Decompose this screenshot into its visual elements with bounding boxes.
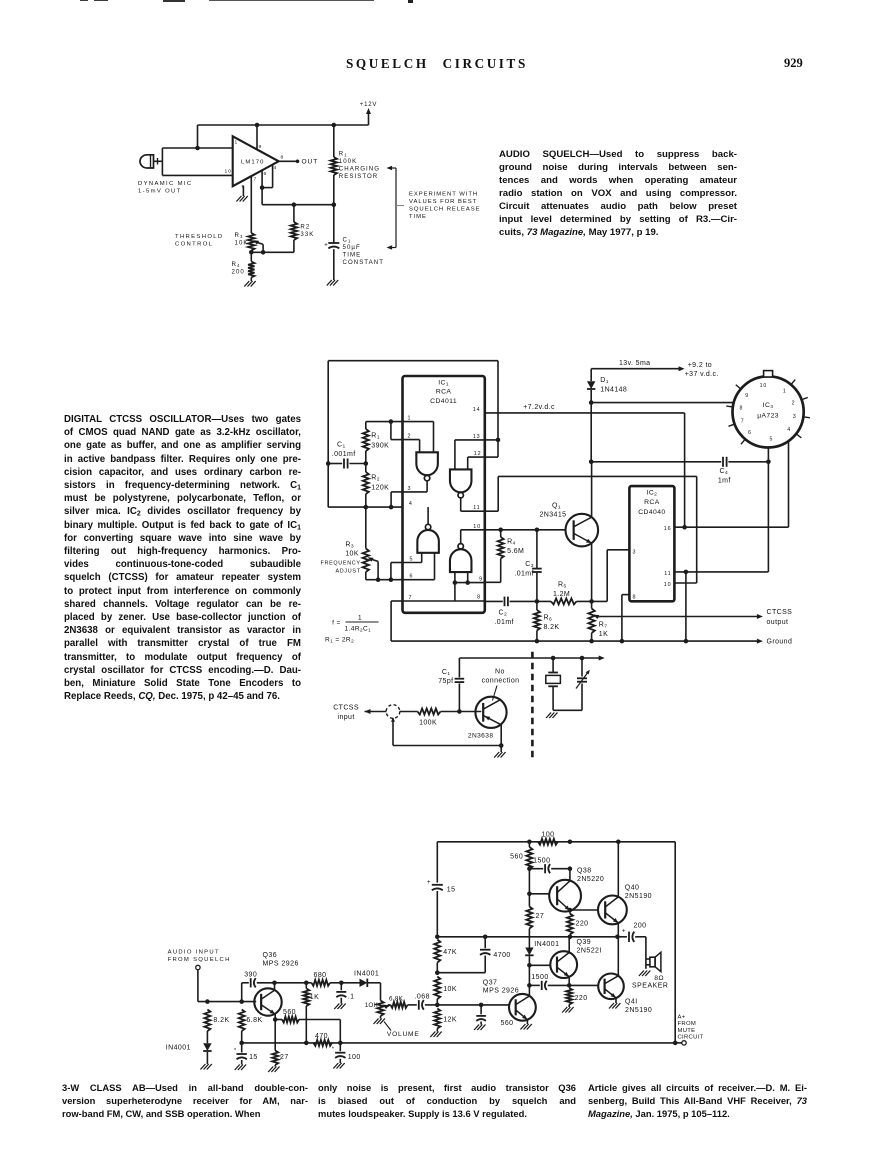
- svg-text:CONTROL: CONTROL: [175, 242, 213, 248]
- wire C4 line: [591, 460, 771, 465]
- svg-text:Q36: Q36: [263, 952, 278, 959]
- svg-text:RESISTOR: RESISTOR: [339, 173, 378, 180]
- potentiometer R7 1K: [588, 609, 599, 644]
- capacitor 1500 top: [529, 864, 572, 873]
- label R7: [599, 622, 608, 638]
- pin 8: [281, 154, 285, 160]
- label Q38: [577, 867, 604, 883]
- pin 1: [235, 140, 239, 146]
- svg-text:3: 3: [793, 414, 797, 420]
- ground 100: [333, 1063, 344, 1069]
- svg-text:13: 13: [473, 434, 481, 440]
- potentiometer 10K volume: [377, 1001, 390, 1017]
- svg-text:OUT: OUT: [302, 159, 319, 166]
- capacitor .068: [419, 1000, 438, 1010]
- svg-text:1N4148: 1N4148: [600, 386, 627, 393]
- wire 27 emitter: [274, 1020, 276, 1051]
- node D1 pin8 junction: [589, 400, 594, 405]
- wire CTCSS input line: [365, 709, 418, 714]
- svg-text:10K: 10K: [235, 240, 249, 247]
- microphone dynamic mic: [140, 155, 158, 168]
- svg-text:R2: R2: [371, 475, 380, 483]
- svg-text:Ground: Ground: [767, 639, 793, 646]
- svg-text:390K: 390K: [371, 442, 389, 449]
- ground speaker: [639, 971, 650, 977]
- svg-text:LM170: LM170: [241, 159, 265, 165]
- svg-text:R1: R1: [371, 433, 380, 441]
- svg-text:No: No: [495, 668, 505, 675]
- svg-text:1K: 1K: [310, 994, 319, 1001]
- svg-text:A+: A+: [678, 1014, 686, 1020]
- svg-text:THRESHOLD: THRESHOLD: [175, 234, 223, 240]
- transistor Q1 2N3415: [566, 514, 599, 547]
- resistor R2 33K: [291, 205, 297, 253]
- wire pin 5 to ground: [242, 186, 244, 196]
- page number 929: [784, 56, 803, 71]
- label 6.8K input: [246, 1017, 262, 1024]
- wire gate A input 1: [403, 422, 434, 453]
- svg-text:C1: C1: [343, 236, 352, 243]
- wire 2N3638 emitter down: [499, 725, 504, 752]
- wire to diode: [341, 982, 359, 984]
- svg-text:1mf: 1mf: [718, 477, 731, 484]
- node 1500 left: [527, 866, 532, 871]
- ground Q37: [520, 1024, 531, 1030]
- label +7.2v.d.c: [523, 404, 555, 411]
- svg-text:12: 12: [474, 451, 482, 457]
- wire Q40 collector: [617, 842, 619, 897]
- svg-text:ADJUST: ADJUST: [336, 568, 361, 574]
- label 2N3638: [468, 733, 494, 740]
- svg-text:6.8K: 6.8K: [389, 996, 404, 1003]
- wire Q40 emitter: [617, 923, 619, 937]
- wire gate D inputs: [403, 572, 485, 601]
- wire pin3 ext: [389, 492, 403, 510]
- svg-text:2N5220: 2N5220: [577, 876, 604, 883]
- wire R3 bottom pin5 pin6: [366, 563, 403, 583]
- wire 27 to diode: [528, 929, 530, 948]
- label 12K: [443, 1016, 457, 1023]
- svg-text:5: 5: [770, 437, 774, 443]
- svg-text:.01mf: .01mf: [494, 619, 514, 626]
- caption audio squelch: [499, 148, 737, 239]
- label experiment note: [409, 192, 481, 221]
- wire Q39 base: [529, 964, 550, 966]
- ground .1: [334, 1004, 345, 1010]
- label CTCSS output: [767, 609, 793, 626]
- svg-text:6.8K: 6.8K: [246, 1017, 262, 1024]
- resistor 10K: [434, 977, 440, 1008]
- resistor 560 emitter: [282, 1017, 340, 1023]
- formula f: [332, 615, 378, 633]
- wire pin8 IC3: [591, 402, 733, 404]
- ground crystal: [546, 713, 557, 719]
- label 27 Q38: [536, 913, 545, 920]
- svg-text:1.2M: 1.2M: [553, 591, 570, 598]
- wire pin1 ext: [366, 419, 403, 424]
- transistor Q38 2N5220: [549, 880, 581, 912]
- svg-text:Q38: Q38: [577, 867, 592, 874]
- capacitor 1500 bottom: [529, 981, 569, 990]
- wire Q41 base: [569, 984, 598, 986]
- svg-text:12K: 12K: [443, 1016, 457, 1023]
- svg-text:15: 15: [249, 1054, 258, 1061]
- resistor 680: [304, 980, 344, 986]
- pin 16 label: [664, 526, 672, 532]
- ground volume: [374, 1019, 385, 1025]
- label .068: [415, 993, 430, 1000]
- wire 13v supply: [591, 366, 684, 371]
- svg-text:CD4011: CD4011: [430, 398, 457, 405]
- svg-text:4: 4: [787, 427, 791, 433]
- transistor Q41 2N5190: [598, 974, 624, 1000]
- capacitor 200: [622, 928, 634, 942]
- resistor R4 200: [248, 252, 254, 281]
- svg-text:100K: 100K: [339, 158, 357, 165]
- label DYNAMIC MIC: [138, 181, 192, 195]
- wire C2 R5 line: [485, 598, 607, 604]
- resistor 12K: [434, 1009, 440, 1032]
- label R4: [507, 539, 524, 555]
- svg-text:RCA: RCA: [436, 389, 452, 396]
- wire C1 link: [326, 461, 368, 466]
- wire gate D output pin10: [461, 530, 485, 544]
- svg-text:TIME: TIME: [409, 214, 427, 220]
- svg-text:EXPERIMENT WITH: EXPERIMENT WITH: [409, 192, 478, 198]
- potentiometer R3 10K: [363, 549, 379, 580]
- label 15 top: [447, 887, 456, 894]
- nand gate B: [417, 524, 439, 553]
- wire output: [279, 160, 300, 164]
- svg-text:CONSTANT: CONSTANT: [343, 259, 384, 266]
- svg-text:.068: .068: [415, 993, 430, 1000]
- svg-text:R6: R6: [544, 615, 553, 623]
- nand gate A: [416, 452, 438, 481]
- svg-text:7: 7: [254, 177, 258, 183]
- label 10K: [443, 986, 457, 993]
- transistor Q37 MPS2926: [509, 994, 536, 1021]
- resistor 8.2K: [204, 1010, 210, 1032]
- svg-text:6: 6: [264, 171, 268, 177]
- label Q41: [625, 998, 652, 1014]
- svg-text:680: 680: [313, 972, 326, 979]
- ground pin5: [236, 196, 247, 202]
- svg-text:Q39: Q39: [577, 939, 592, 946]
- label 4700: [493, 952, 510, 959]
- wire gate B input pin 6: [403, 553, 435, 580]
- wire gate C input pin13: [455, 440, 485, 470]
- ground 560 bypass: [474, 1025, 485, 1031]
- svg-text:C4: C4: [720, 468, 729, 476]
- svg-text:8Ω: 8Ω: [654, 975, 664, 982]
- svg-text:CTCSS: CTCSS: [333, 704, 359, 711]
- ground 2N3638: [494, 752, 505, 758]
- svg-text:9: 9: [745, 393, 749, 399]
- pin 10 label: [664, 582, 672, 588]
- label R5: [553, 582, 570, 598]
- wire pin4 line: [328, 505, 402, 510]
- svg-text:.001mf: .001mf: [332, 451, 356, 458]
- resistor 220 Q39: [566, 988, 572, 1007]
- svg-text:10K: 10K: [443, 986, 457, 993]
- svg-text:IN4001: IN4001: [166, 1045, 191, 1052]
- label D1: [600, 377, 627, 393]
- nand gate C: [450, 469, 472, 498]
- label .1: [348, 993, 355, 1000]
- node C1 base junction: [457, 709, 462, 714]
- wire Q41 emitter: [615, 998, 617, 1003]
- svg-text:+: +: [427, 880, 431, 886]
- svg-text:4: 4: [409, 501, 413, 507]
- node pin9 junction: [255, 123, 260, 128]
- wire left rail top: [436, 842, 438, 883]
- svg-text:SPEAKER: SPEAKER: [632, 983, 668, 990]
- svg-text:8: 8: [633, 595, 637, 601]
- capacitor C3 .01mf: [532, 530, 542, 602]
- svg-text:MUTE: MUTE: [678, 1028, 696, 1034]
- resistor 470: [314, 1040, 333, 1046]
- svg-text:100: 100: [541, 831, 554, 838]
- label Q39: [577, 939, 602, 955]
- label R2 120K: [371, 475, 389, 492]
- wire pin8 gnd: [620, 595, 630, 644]
- label No connection: [482, 668, 520, 700]
- transistor Q39 2N5221: [550, 951, 577, 978]
- wire emitter return: [393, 718, 501, 745]
- wire pins 1-2 tie: [391, 422, 403, 440]
- svg-text:connection: connection: [482, 678, 520, 685]
- svg-text:1500: 1500: [533, 857, 550, 864]
- wire gate B input pin 5: [403, 553, 422, 563]
- transistor Q2 2N3638: [475, 697, 506, 728]
- svg-text:15: 15: [447, 887, 456, 894]
- svg-text:200: 200: [232, 269, 245, 276]
- svg-text:C2: C2: [499, 610, 508, 618]
- label 1500 top: [533, 857, 550, 864]
- svg-text:8.2K: 8.2K: [213, 1017, 229, 1024]
- svg-text:CTCSS: CTCSS: [767, 609, 793, 616]
- wire gate A input 2: [403, 440, 420, 453]
- svg-text:R1: R1: [339, 151, 348, 158]
- svg-text:1-5mV OUT: 1-5mV OUT: [138, 189, 182, 195]
- pin 7: [254, 177, 258, 183]
- label Q36: [263, 952, 299, 968]
- svg-text:4: 4: [274, 165, 278, 171]
- ground 15 input: [235, 1065, 246, 1071]
- label 390: [244, 971, 257, 978]
- svg-text:AUDIO INPUT: AUDIO INPUT: [168, 949, 220, 955]
- label 1500 bottom: [531, 974, 548, 981]
- diode 1N4001 input: [203, 1043, 211, 1064]
- svg-text:8.2K: 8.2K: [544, 624, 560, 631]
- svg-text:7: 7: [741, 419, 745, 425]
- svg-text:8: 8: [477, 594, 481, 600]
- wire pin11 reset gnd: [684, 572, 689, 643]
- svg-text:R1 = 2R2: R1 = 2R2: [325, 637, 354, 644]
- nand gate D: [450, 544, 472, 573]
- caption 3-w class ab col1: [62, 1081, 308, 1121]
- svg-text:IN4001: IN4001: [354, 970, 379, 977]
- svg-text:µA723: µA723: [757, 412, 779, 419]
- diode D1 1N4148: [587, 369, 595, 403]
- label FREQUENCY ADJUST: [321, 560, 361, 574]
- label R1: [339, 151, 380, 181]
- resistor 27 Q38: [526, 907, 532, 929]
- wire Q41 collector: [617, 937, 619, 976]
- label 470: [315, 1033, 328, 1040]
- node R1 top junction: [332, 123, 337, 128]
- label C1: [332, 441, 356, 458]
- pin 9 label: [479, 577, 483, 583]
- capacitor 4700: [437, 935, 490, 973]
- pin 4 label: [409, 501, 413, 507]
- wire Q39 collector: [568, 937, 570, 953]
- wire D1 node down: [589, 403, 594, 465]
- label R2: [300, 224, 314, 239]
- resistor 6.8K wiper: [388, 1002, 417, 1008]
- connector dashed circle: [386, 705, 400, 722]
- wire top rail: [437, 840, 675, 845]
- svg-text:5.6M: 5.6M: [507, 548, 524, 555]
- capacitor 15 input: [234, 1041, 247, 1065]
- wire pin6 feedback to pin4: [260, 165, 273, 190]
- pin 5 label: [410, 556, 414, 562]
- label 220 Q38: [576, 920, 589, 927]
- pin 14 label: [473, 407, 481, 413]
- svg-text:10K: 10K: [345, 551, 359, 558]
- label Ground: [767, 639, 793, 646]
- label 680: [313, 972, 326, 979]
- wire input down: [198, 970, 256, 1004]
- svg-text:RCA: RCA: [644, 499, 660, 506]
- label 560 top: [510, 854, 523, 861]
- svg-text:R3: R3: [235, 232, 244, 239]
- svg-text:1: 1: [235, 140, 239, 146]
- label 560 bypass: [501, 1020, 514, 1027]
- wire pin11 line: [674, 570, 768, 575]
- svg-text:2: 2: [408, 434, 412, 440]
- label OUT: [302, 159, 319, 166]
- pin 8 label: [477, 594, 481, 600]
- node pin13 junction: [496, 438, 501, 443]
- svg-text:.1: .1: [348, 993, 355, 1000]
- wire CTCSS output: [600, 614, 763, 619]
- wire 560 down: [338, 1020, 343, 1046]
- IC U2 CD4040 box: [629, 486, 674, 601]
- IC U1 CD4011 box: [403, 376, 485, 613]
- svg-text:IC3: IC3: [763, 402, 774, 410]
- svg-text:9: 9: [479, 577, 483, 583]
- svg-text:R3: R3: [345, 542, 354, 550]
- capacitor C2 .01mf: [505, 597, 508, 607]
- svg-text:VALUES FOR BEST: VALUES FOR BEST: [409, 199, 477, 205]
- svg-text:10: 10: [225, 169, 232, 175]
- transistor Q40 2N5190: [598, 896, 627, 925]
- svg-text:+: +: [324, 242, 328, 248]
- node 47K top: [435, 935, 440, 940]
- label C1 75pf: [438, 669, 453, 685]
- svg-text:+: +: [622, 928, 626, 934]
- svg-text:11: 11: [664, 571, 671, 577]
- pin 9: [259, 144, 263, 150]
- svg-text:C1: C1: [337, 441, 346, 449]
- wire IC3 pin5 down: [767, 447, 769, 572]
- label 200: [633, 923, 646, 930]
- wire pin10 out line: [485, 528, 566, 533]
- svg-text:8: 8: [281, 154, 285, 160]
- svg-text:6: 6: [410, 574, 414, 580]
- svg-text:220: 220: [576, 920, 589, 927]
- label 100K: [419, 720, 437, 727]
- svg-text:390: 390: [244, 971, 257, 978]
- wire Q38 base: [529, 893, 549, 895]
- label 560 emitter: [283, 1009, 296, 1016]
- svg-text:+9.2 to: +9.2 to: [688, 362, 712, 369]
- svg-text:470: 470: [315, 1033, 328, 1040]
- label C2: [494, 610, 514, 626]
- wire diode node down: [527, 965, 532, 987]
- wire pin13 ext: [485, 439, 498, 441]
- svg-text:2: 2: [792, 401, 796, 407]
- svg-text:Q40: Q40: [625, 884, 640, 891]
- svg-text:*: *: [332, 1047, 335, 1053]
- svg-text:FROM: FROM: [678, 1021, 697, 1027]
- capacitor 560 bypass: [476, 1005, 486, 1025]
- resistor R4 5.6M: [485, 530, 504, 583]
- label R3: [345, 542, 359, 558]
- ground 220 Q39: [562, 1007, 573, 1013]
- capacitor 100: [332, 1043, 346, 1063]
- wire gate C input pin12: [468, 457, 485, 469]
- svg-text:FROM SQUELCH: FROM SQUELCH: [168, 957, 231, 963]
- label 1N4001 bias: [534, 941, 559, 948]
- crystal Y1: [546, 658, 561, 710]
- label AUDIO INPUT FROM SQUELCH: [168, 949, 231, 963]
- svg-text:MPS 2926: MPS 2926: [483, 987, 519, 994]
- svg-text:100K: 100K: [419, 720, 437, 727]
- svg-text:IN4001: IN4001: [534, 941, 559, 948]
- svg-text:TIME: TIME: [343, 251, 362, 258]
- svg-text:14: 14: [473, 407, 481, 413]
- svg-text:10: 10: [664, 582, 672, 588]
- svg-text:2N3415: 2N3415: [540, 512, 567, 519]
- wire Q1 emitter: [589, 543, 594, 608]
- svg-text:2N5190: 2N5190: [625, 1007, 652, 1014]
- label CTCSS input: [333, 704, 359, 721]
- svg-text:4700: 4700: [493, 952, 510, 959]
- variable capacitor: [553, 658, 590, 710]
- page header title: [346, 56, 528, 72]
- label 15 input: [249, 1054, 258, 1061]
- label C3: [514, 561, 534, 577]
- label 8.2K: [213, 1017, 229, 1024]
- resistor 220 Q38: [567, 914, 573, 937]
- svg-text:2N3638: 2N3638: [468, 733, 494, 740]
- wire Q37 collector: [528, 985, 530, 996]
- wire right rail: [673, 842, 678, 1045]
- label 220 Q39: [575, 995, 588, 1002]
- terminal audio input: [196, 965, 200, 969]
- svg-text:1: 1: [408, 416, 412, 422]
- label VOLUME: [384, 1022, 420, 1039]
- pin 4: [274, 165, 278, 171]
- svg-text:560: 560: [510, 854, 523, 861]
- svg-text:2N5190: 2N5190: [625, 893, 652, 900]
- ground C1: [327, 280, 338, 286]
- potentiometer R3 10K: [248, 233, 263, 252]
- svg-text:output: output: [767, 619, 789, 626]
- svg-text:R2: R2: [300, 224, 310, 231]
